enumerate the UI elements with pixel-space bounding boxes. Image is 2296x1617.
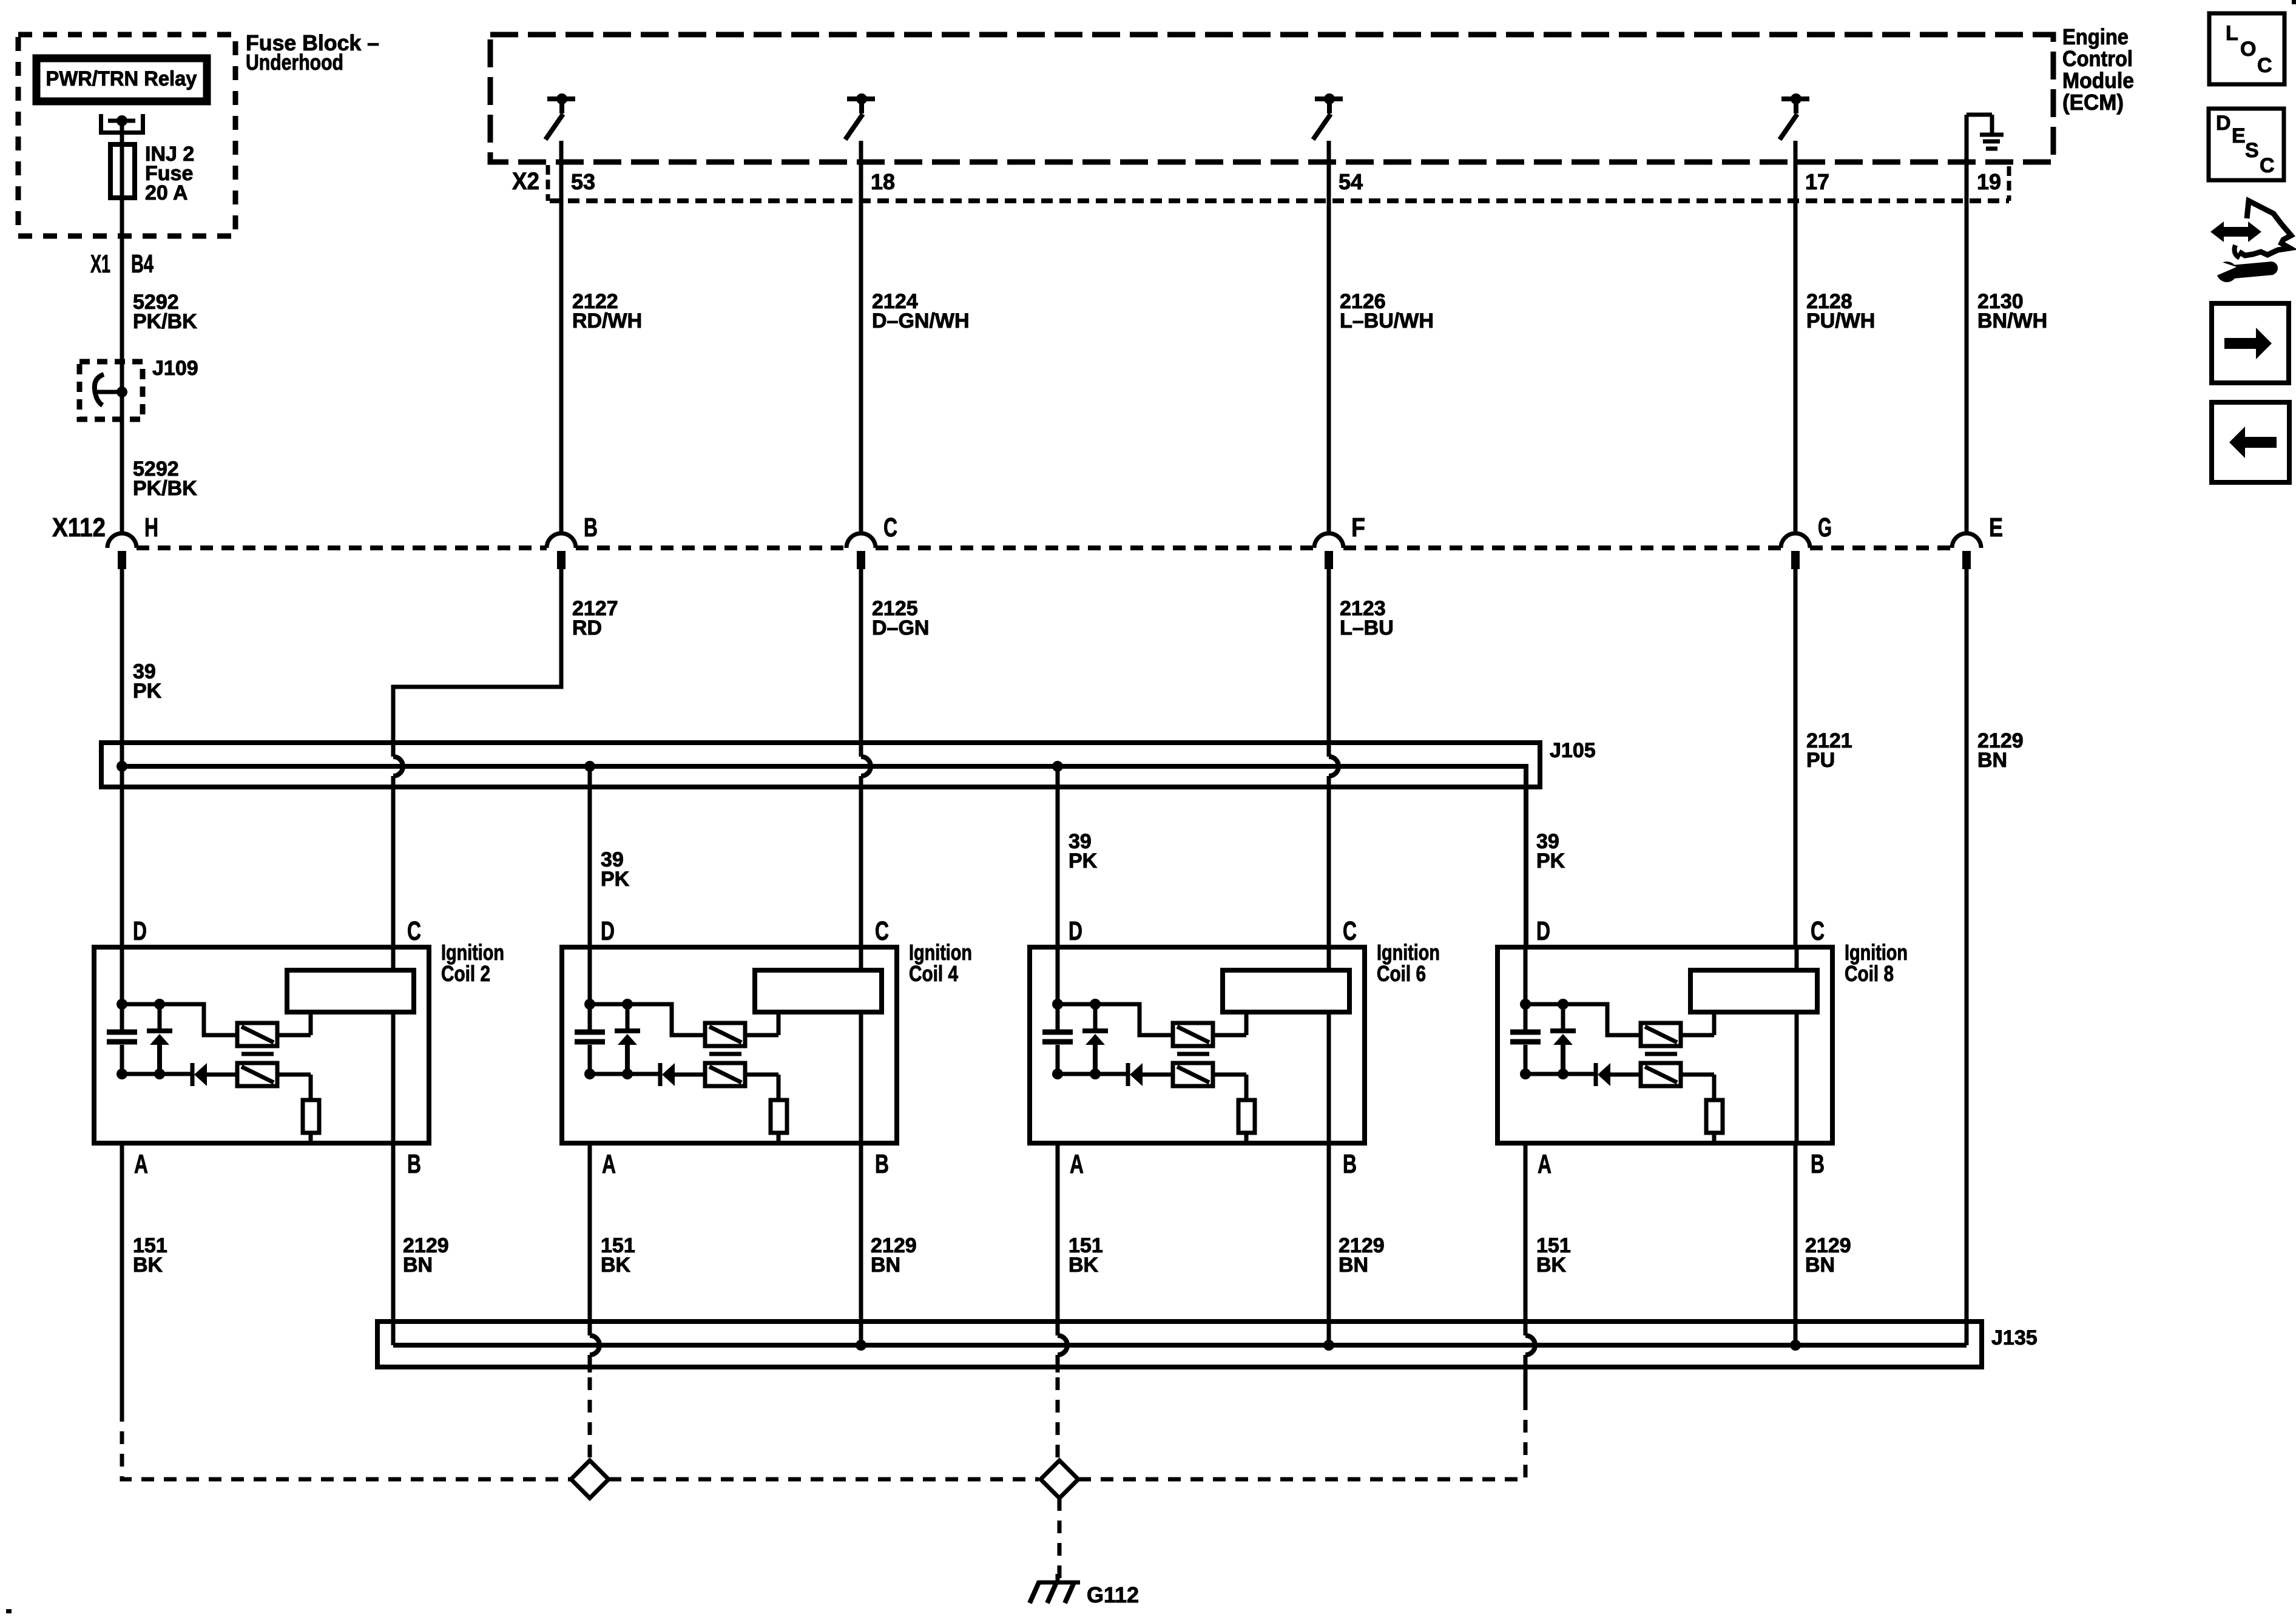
svg-text:D–GN: D–GN [872, 616, 929, 640]
svg-text:Coil 2: Coil 2 [441, 961, 490, 986]
svg-text:RD: RD [572, 616, 602, 640]
svg-text:PWR/TRN Relay: PWR/TRN Relay [46, 67, 197, 90]
svg-text:H: H [144, 513, 158, 542]
svg-text:Engine: Engine [2062, 24, 2129, 49]
svg-text:B: B [407, 1149, 421, 1179]
svg-text:Coil 4: Coil 4 [909, 961, 958, 986]
svg-text:20 A: 20 A [145, 181, 188, 204]
svg-text:18: 18 [871, 169, 895, 194]
svg-text:BN: BN [871, 1254, 900, 1277]
svg-text:S: S [2245, 139, 2259, 162]
svg-text:17: 17 [1805, 169, 1829, 194]
svg-text:53: 53 [571, 169, 595, 194]
svg-text:BN: BN [403, 1254, 433, 1277]
svg-text:BK: BK [1069, 1254, 1099, 1277]
svg-text:D: D [2216, 112, 2231, 135]
svg-text:PK: PK [1069, 849, 1098, 873]
svg-text:X1: X1 [90, 249, 110, 278]
svg-text:BN: BN [1805, 1254, 1835, 1277]
svg-text:F: F [1351, 513, 1365, 542]
svg-text:Coil 6: Coil 6 [1377, 961, 1426, 986]
svg-text:B4: B4 [131, 249, 154, 278]
svg-text:(ECM): (ECM) [2062, 90, 2124, 115]
svg-text:19: 19 [1977, 169, 2001, 194]
svg-text:BN: BN [1977, 749, 2007, 772]
svg-text:J135: J135 [1991, 1326, 2038, 1349]
svg-text:RD/WH: RD/WH [572, 309, 642, 333]
svg-text:L: L [2226, 22, 2238, 45]
svg-text:Underhood: Underhood [246, 50, 343, 75]
svg-text:C: C [2260, 154, 2275, 177]
svg-text:L–BU: L–BU [1340, 616, 1394, 640]
svg-text:A: A [134, 1149, 148, 1179]
svg-text:E: E [2232, 124, 2246, 147]
svg-text:Coil 8: Coil 8 [1845, 961, 1894, 986]
svg-text:C: C [883, 513, 897, 542]
svg-text:PK: PK [1536, 849, 1565, 873]
svg-text:D: D [133, 916, 147, 946]
svg-text:X112: X112 [52, 513, 106, 542]
svg-text:X2: X2 [512, 168, 539, 195]
svg-text:54: 54 [1339, 169, 1363, 194]
svg-text:G: G [1818, 513, 1832, 542]
svg-text:B: B [584, 513, 598, 542]
svg-text:BK: BK [133, 1254, 163, 1277]
svg-text:E: E [1989, 513, 2003, 542]
svg-text:PK: PK [601, 868, 630, 891]
svg-text:Module: Module [2062, 68, 2134, 93]
svg-text:PK/BK: PK/BK [133, 477, 197, 500]
svg-text:C: C [407, 916, 421, 946]
svg-text:J105: J105 [1550, 739, 1596, 762]
svg-text:C: C [2257, 54, 2272, 77]
svg-text:BN: BN [1339, 1254, 1368, 1277]
svg-text:L–BU/WH: L–BU/WH [1340, 309, 1434, 333]
svg-text:J109: J109 [152, 357, 198, 380]
svg-text:BN/WH: BN/WH [1977, 309, 2047, 333]
svg-text:BK: BK [1536, 1254, 1567, 1277]
svg-text:BK: BK [601, 1254, 631, 1277]
svg-text:G112: G112 [1087, 1582, 1139, 1607]
svg-text:PU/WH: PU/WH [1806, 309, 1875, 333]
svg-text:D–GN/WH: D–GN/WH [872, 309, 970, 333]
svg-text:PU: PU [1806, 749, 1835, 772]
svg-text:PK/BK: PK/BK [133, 310, 197, 333]
svg-text:Control: Control [2062, 46, 2133, 71]
svg-text:PK: PK [133, 680, 162, 703]
svg-text:O: O [2240, 38, 2256, 61]
